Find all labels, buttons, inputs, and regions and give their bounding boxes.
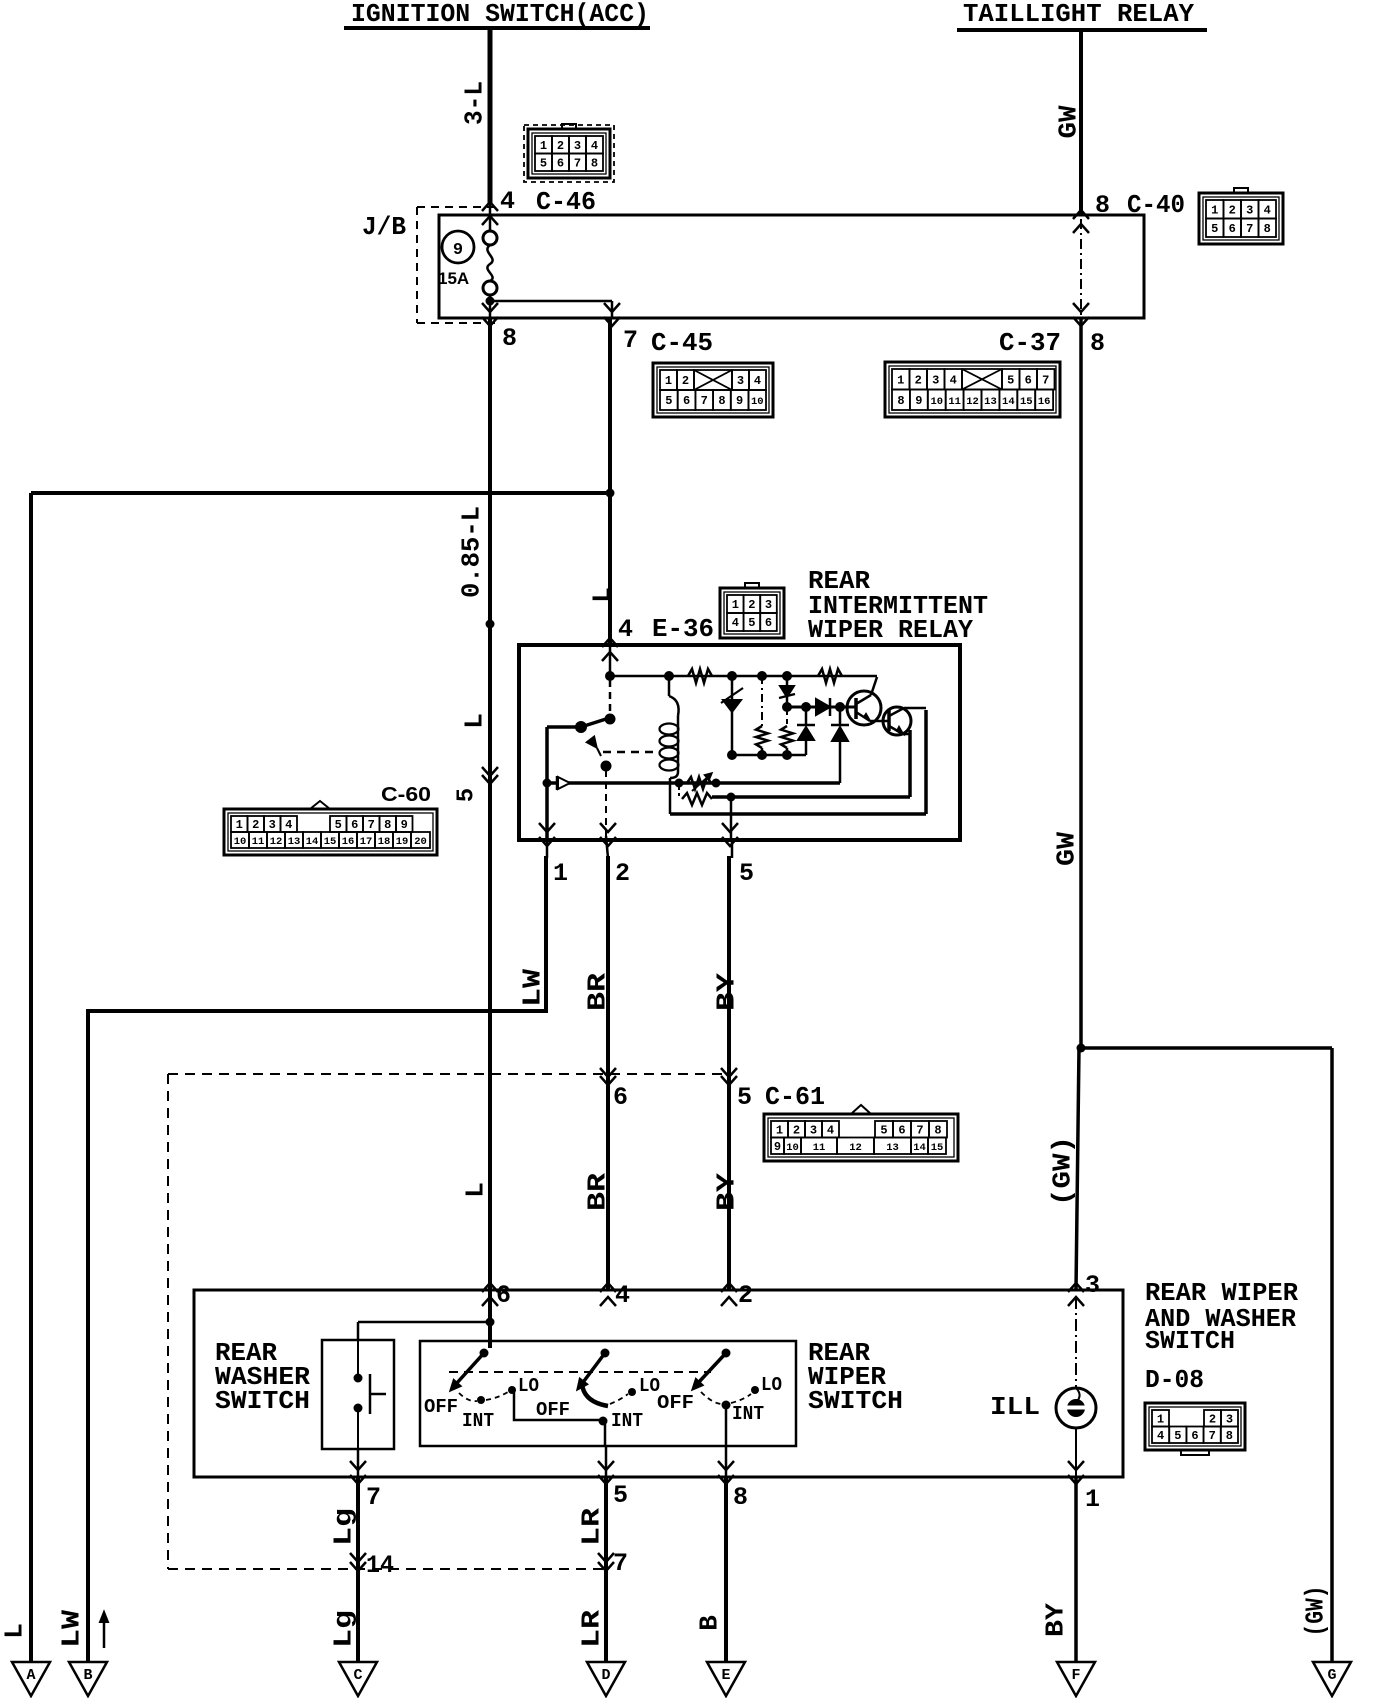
svg-text:19: 19 <box>396 836 409 848</box>
svg-text:6: 6 <box>1191 1429 1198 1443</box>
svg-text:7: 7 <box>613 1549 628 1578</box>
svg-text:OFF: OFF <box>657 1392 694 1414</box>
svg-text:L: L <box>0 1623 29 1639</box>
svg-text:12: 12 <box>270 836 283 848</box>
svg-text:SWITCH: SWITCH <box>808 1386 903 1416</box>
svg-text:10: 10 <box>930 396 943 408</box>
svg-text:8: 8 <box>591 156 598 170</box>
svg-text:E: E <box>721 1667 730 1684</box>
svg-text:11: 11 <box>813 1142 826 1154</box>
svg-text:7: 7 <box>1246 222 1253 236</box>
svg-text:C: C <box>353 1667 362 1684</box>
svg-text:GW: GW <box>1051 832 1081 866</box>
svg-text:SWITCH: SWITCH <box>1145 1326 1235 1356</box>
svg-text:8: 8 <box>384 818 391 832</box>
svg-text:7: 7 <box>916 1123 923 1137</box>
svg-text:LO: LO <box>518 1375 539 1397</box>
svg-text:5: 5 <box>1211 222 1218 236</box>
svg-text:15A: 15A <box>438 269 469 288</box>
svg-text:B: B <box>83 1667 92 1684</box>
svg-text:8: 8 <box>934 1123 941 1137</box>
svg-text:C-45: C-45 <box>651 328 713 358</box>
svg-text:8: 8 <box>1090 329 1105 358</box>
svg-text:1: 1 <box>665 374 672 388</box>
svg-text:C-61: C-61 <box>765 1082 825 1112</box>
svg-text:16: 16 <box>342 836 355 848</box>
svg-text:5: 5 <box>739 859 754 888</box>
svg-text:5: 5 <box>335 818 342 832</box>
svg-text:7: 7 <box>1042 373 1049 387</box>
svg-text:9: 9 <box>774 1140 781 1154</box>
svg-text:LW: LW <box>56 1610 86 1648</box>
svg-text:3: 3 <box>269 818 276 832</box>
svg-text:2: 2 <box>1229 203 1236 217</box>
svg-text:2: 2 <box>682 374 689 388</box>
svg-text:2: 2 <box>793 1123 800 1137</box>
svg-text:7: 7 <box>368 818 375 832</box>
svg-text:ILL: ILL <box>990 1392 1040 1422</box>
svg-text:INT: INT <box>611 1410 643 1432</box>
svg-text:1: 1 <box>1211 203 1218 217</box>
svg-text:L: L <box>460 1182 490 1198</box>
svg-text:7: 7 <box>574 156 581 170</box>
svg-text:1: 1 <box>236 818 243 832</box>
svg-text:D-08: D-08 <box>1145 1365 1204 1395</box>
svg-text:4: 4 <box>1157 1429 1164 1443</box>
svg-text:F: F <box>1071 1667 1080 1684</box>
svg-text:Lg: Lg <box>328 1610 358 1648</box>
svg-text:7: 7 <box>701 394 708 408</box>
svg-text:3: 3 <box>1246 203 1253 217</box>
svg-text:13: 13 <box>984 396 997 408</box>
svg-text:6: 6 <box>351 818 358 832</box>
svg-text:GW: GW <box>1053 105 1083 138</box>
svg-text:6: 6 <box>765 616 772 630</box>
svg-text:BR: BR <box>582 1173 612 1211</box>
svg-text:6: 6 <box>898 1123 905 1137</box>
svg-text:INT: INT <box>462 1410 494 1432</box>
svg-text:SWITCH: SWITCH <box>215 1386 310 1416</box>
svg-text:OFF: OFF <box>536 1399 570 1421</box>
svg-text:1: 1 <box>540 139 547 153</box>
svg-text:BY: BY <box>1040 1603 1070 1637</box>
svg-text:1: 1 <box>1157 1412 1164 1426</box>
svg-text:17: 17 <box>360 836 373 848</box>
svg-text:4: 4 <box>1264 203 1271 217</box>
svg-text:L: L <box>459 713 489 729</box>
svg-text:BY: BY <box>711 1173 741 1211</box>
svg-text:5: 5 <box>1174 1429 1181 1443</box>
svg-text:(GW): (GW) <box>1047 1136 1077 1206</box>
svg-text:6: 6 <box>613 1083 628 1112</box>
svg-text:4: 4 <box>615 1281 630 1310</box>
svg-text:5: 5 <box>748 616 755 630</box>
svg-text:6: 6 <box>1025 373 1032 387</box>
svg-text:J/B: J/B <box>362 212 406 242</box>
svg-text:14: 14 <box>366 1551 394 1580</box>
svg-text:18: 18 <box>378 836 391 848</box>
svg-text:5: 5 <box>540 156 547 170</box>
svg-text:C-40: C-40 <box>1127 190 1185 220</box>
svg-text:3: 3 <box>574 139 581 153</box>
svg-text:LW: LW <box>517 969 547 1007</box>
svg-text:D: D <box>601 1667 610 1684</box>
svg-text:2: 2 <box>615 859 630 888</box>
svg-text:LR: LR <box>576 1508 606 1546</box>
svg-text:LR: LR <box>576 1610 606 1648</box>
svg-text:5: 5 <box>1007 373 1014 387</box>
svg-text:1: 1 <box>1085 1485 1100 1514</box>
svg-text:16: 16 <box>1038 396 1051 408</box>
svg-text:INT: INT <box>732 1403 764 1425</box>
svg-text:3: 3 <box>932 373 939 387</box>
svg-text:E-36: E-36 <box>652 614 714 644</box>
svg-text:5: 5 <box>613 1481 628 1510</box>
svg-text:8: 8 <box>718 394 725 408</box>
svg-text:6: 6 <box>683 394 690 408</box>
svg-text:12: 12 <box>966 396 979 408</box>
svg-text:8: 8 <box>897 394 904 408</box>
svg-text:7: 7 <box>366 1483 381 1512</box>
svg-text:B: B <box>694 1615 724 1631</box>
svg-text:1: 1 <box>732 598 739 612</box>
svg-text:11: 11 <box>948 396 961 408</box>
svg-text:C-37: C-37 <box>999 328 1061 358</box>
svg-text:3: 3 <box>737 374 744 388</box>
svg-text:8: 8 <box>1264 222 1271 236</box>
svg-text:4: 4 <box>500 187 515 216</box>
svg-text:2: 2 <box>748 598 755 612</box>
svg-text:4: 4 <box>618 615 633 644</box>
svg-text:BY: BY <box>711 973 741 1011</box>
svg-text:9: 9 <box>736 394 743 408</box>
svg-text:6: 6 <box>557 156 564 170</box>
svg-text:3: 3 <box>1226 1412 1233 1426</box>
svg-text:4: 4 <box>732 616 739 630</box>
svg-text:2: 2 <box>915 373 922 387</box>
svg-text:3: 3 <box>1085 1271 1100 1300</box>
svg-text:OFF: OFF <box>424 1396 458 1418</box>
svg-text:9: 9 <box>401 818 408 832</box>
svg-text:Lg: Lg <box>328 1508 358 1546</box>
svg-text:13: 13 <box>288 836 301 848</box>
svg-text:13: 13 <box>886 1142 899 1154</box>
svg-text:5: 5 <box>880 1123 887 1137</box>
svg-text:14: 14 <box>1002 396 1015 408</box>
svg-text:9: 9 <box>453 241 463 260</box>
svg-text:IGNITION SWITCH(ACC): IGNITION SWITCH(ACC) <box>351 0 649 29</box>
svg-text:5: 5 <box>737 1083 752 1112</box>
svg-text:4: 4 <box>827 1123 834 1137</box>
svg-text:7: 7 <box>623 326 638 355</box>
svg-text:A: A <box>26 1667 35 1684</box>
svg-text:6: 6 <box>1229 222 1236 236</box>
svg-text:LO: LO <box>761 1374 782 1396</box>
svg-text:2: 2 <box>1209 1412 1216 1426</box>
svg-text:1: 1 <box>776 1123 783 1137</box>
svg-text:7: 7 <box>1209 1429 1216 1443</box>
svg-text:8: 8 <box>1095 191 1110 220</box>
svg-text:15: 15 <box>324 836 337 848</box>
svg-text:3: 3 <box>810 1123 817 1137</box>
svg-text:5: 5 <box>665 394 672 408</box>
svg-text:8: 8 <box>1226 1429 1233 1443</box>
svg-text:14: 14 <box>913 1142 926 1154</box>
svg-text:4: 4 <box>754 374 761 388</box>
svg-text:9: 9 <box>915 394 922 408</box>
svg-text:2: 2 <box>738 1281 753 1310</box>
svg-text:1: 1 <box>553 859 568 888</box>
svg-text:8: 8 <box>502 324 517 353</box>
svg-text:C-60: C-60 <box>381 784 431 806</box>
svg-text:3-L: 3-L <box>459 81 489 125</box>
svg-text:L: L <box>587 587 617 603</box>
svg-text:TAILLIGHT RELAY: TAILLIGHT RELAY <box>963 0 1194 29</box>
svg-text:4: 4 <box>591 139 598 153</box>
svg-text:3: 3 <box>765 598 772 612</box>
svg-text:1: 1 <box>897 373 904 387</box>
svg-text:20: 20 <box>414 836 427 848</box>
svg-text:WIPER RELAY: WIPER RELAY <box>808 615 973 645</box>
svg-text:10: 10 <box>786 1142 799 1154</box>
svg-text:8: 8 <box>733 1483 748 1512</box>
svg-text:0.85-L: 0.85-L <box>456 506 486 598</box>
svg-text:2: 2 <box>252 818 259 832</box>
svg-text:C-46: C-46 <box>536 187 596 217</box>
svg-text:10: 10 <box>234 836 247 848</box>
svg-text:15: 15 <box>1020 396 1033 408</box>
svg-text:4: 4 <box>950 373 957 387</box>
svg-text:12: 12 <box>849 1142 862 1154</box>
svg-text:6: 6 <box>496 1281 511 1310</box>
svg-text:2: 2 <box>557 139 564 153</box>
svg-text:(GW): (GW) <box>1300 1586 1330 1637</box>
svg-text:14: 14 <box>306 836 319 848</box>
svg-text:15: 15 <box>931 1142 944 1154</box>
svg-text:4: 4 <box>285 818 292 832</box>
svg-text:11: 11 <box>252 836 265 848</box>
svg-text:10: 10 <box>751 396 764 408</box>
svg-text:5: 5 <box>454 788 481 802</box>
svg-text:BR: BR <box>582 973 612 1011</box>
svg-text:G: G <box>1327 1667 1336 1684</box>
